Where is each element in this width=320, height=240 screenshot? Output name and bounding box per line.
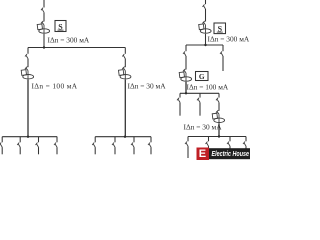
RCD4 type S 300 mA (right main) xyxy=(199,21,211,34)
wire: QF4 to RCD4 xyxy=(205,9,207,22)
bus 1 (left diagram distribution bus) xyxy=(28,47,125,49)
wire: RCD1 down to bus 1 xyxy=(43,34,45,48)
wire: RCD2 down to bottom bus 2L xyxy=(27,80,29,137)
circuit breaker QF5 xyxy=(183,51,186,56)
wire: QF2 to RCD2 xyxy=(27,59,29,68)
Electric House logo red E box xyxy=(197,148,210,161)
value label IΔn = 100 mA xyxy=(32,82,78,91)
svg-text:Electric House: Electric House xyxy=(212,151,250,158)
wire: QF3 to RCD3 xyxy=(124,59,126,68)
letter S with underline (left S box) xyxy=(58,23,63,32)
RCD3 30 mA (right sub-feed) xyxy=(119,67,131,80)
junction dot feed / bus 2L xyxy=(27,136,29,138)
bus R3 (right diagram third bus) xyxy=(188,136,246,138)
wire: main incoming feed upper segment (right diagram) xyxy=(205,0,207,4)
label box G xyxy=(196,72,209,81)
junction dot at main feed / bus 1 xyxy=(43,46,45,48)
group circuit 1: wire + breaker xyxy=(1,137,3,143)
group circuit 2: wire + breaker xyxy=(19,137,21,143)
svg-text:IΔn = 100 мА: IΔn = 100 мА xyxy=(187,83,229,92)
svg-text:IΔn = 300 мА: IΔn = 300 мА xyxy=(208,35,250,44)
value label IΔn = 30 mA (right diagram) xyxy=(184,123,223,132)
junction dot feed / bus 2R xyxy=(124,136,126,138)
circuit breaker QF4 (right main feed) xyxy=(203,4,206,9)
wire: left sub-feed of bus R1 xyxy=(185,45,187,51)
label box S (right) xyxy=(214,23,226,34)
wire: QF5 to RCD5 xyxy=(185,56,187,70)
group circuit 6: wire + breaker xyxy=(114,137,116,143)
R2 circuit 3: wire + breaker to RCD6 xyxy=(218,93,220,97)
bus R2 (right diagram second bus) xyxy=(180,92,219,94)
circuit breaker QF1 (left main feed) xyxy=(41,8,44,13)
wire: QF6 open-ended stub xyxy=(222,56,224,71)
RCD5 type G 100 mA xyxy=(179,69,191,82)
group circuit 5: wire + breaker xyxy=(94,137,96,143)
svg-text:E: E xyxy=(199,148,206,160)
letter G xyxy=(199,72,205,81)
R3 circuit 4: wire + breaker + stub xyxy=(245,137,247,142)
junction dot feed / bus R2 xyxy=(185,92,187,94)
value label IΔn = 30 mA xyxy=(128,82,167,91)
RCD1 type S 300 mA (left main) xyxy=(37,21,49,34)
bus R1 (right diagram first bus) xyxy=(186,44,223,46)
group circuit 8: wire + breaker xyxy=(150,137,152,143)
RCD6 30 mA (right diagram) xyxy=(212,110,224,123)
wire: RCD6 down to bus R3 xyxy=(218,123,220,136)
circuit breaker QF2 (left sub-feed) xyxy=(25,54,28,59)
value label IΔn = 100 mA (right diagram) xyxy=(187,83,229,92)
bus 2R (right bottom group bus of left diagram) xyxy=(95,136,151,138)
Electric House logo dark bar xyxy=(209,148,250,159)
wire: RCD3 down to bottom bus 2R xyxy=(124,80,126,137)
svg-text:IΔn = 30 мА: IΔn = 30 мА xyxy=(184,123,223,132)
junction dot feed / bus R3 xyxy=(218,135,220,137)
wire: RCD4 down to bus R1 xyxy=(205,34,207,45)
value label IΔn = 300 mA (left main) xyxy=(48,36,90,45)
svg-text:G: G xyxy=(199,72,205,81)
svg-text:IΔn = 30 мА: IΔn = 30 мА xyxy=(128,82,167,91)
group circuit 7: wire + breaker xyxy=(133,137,135,143)
bus 2L (left bottom group bus) xyxy=(2,136,57,138)
R3 circuit 3: wire + breaker + stub xyxy=(229,137,231,142)
wire: left sub-feed from bus 1 xyxy=(27,48,29,54)
R3 circuit 2: wire + breaker + stub xyxy=(208,137,210,142)
circuit breaker QF6 xyxy=(220,51,223,56)
letter S with underline (right S box) xyxy=(218,25,223,34)
wire: QF1 to RCD1 xyxy=(43,12,45,21)
wire: right stub of bus R1 xyxy=(222,45,224,51)
junction dot main feed / bus R1 xyxy=(204,44,206,46)
group circuit 3: wire + breaker xyxy=(38,137,40,143)
R3 circuit 1: wire + breaker + stub xyxy=(187,137,189,142)
wire: right sub-feed from bus 1 xyxy=(124,48,126,54)
wire: RCD5 down to bus R2 xyxy=(185,82,187,93)
wire: main incoming feed upper segment xyxy=(43,0,45,8)
svg-text:IΔn = 300 мА: IΔn = 300 мА xyxy=(48,36,90,45)
R2 circuit 1: wire + breaker + stub xyxy=(179,93,181,97)
R2 circuit 2: wire + breaker + stub xyxy=(199,93,201,97)
RCD2 100 mA (left sub-feed) xyxy=(21,67,33,80)
circuit breaker QF3 (right sub-feed) xyxy=(122,54,125,59)
value label IΔn = 300 mA (right main) xyxy=(208,35,250,44)
group circuit 4: wire + breaker xyxy=(56,137,58,143)
svg-text:IΔn = 100 мА: IΔn = 100 мА xyxy=(32,82,78,91)
label box S (left) xyxy=(55,21,66,32)
